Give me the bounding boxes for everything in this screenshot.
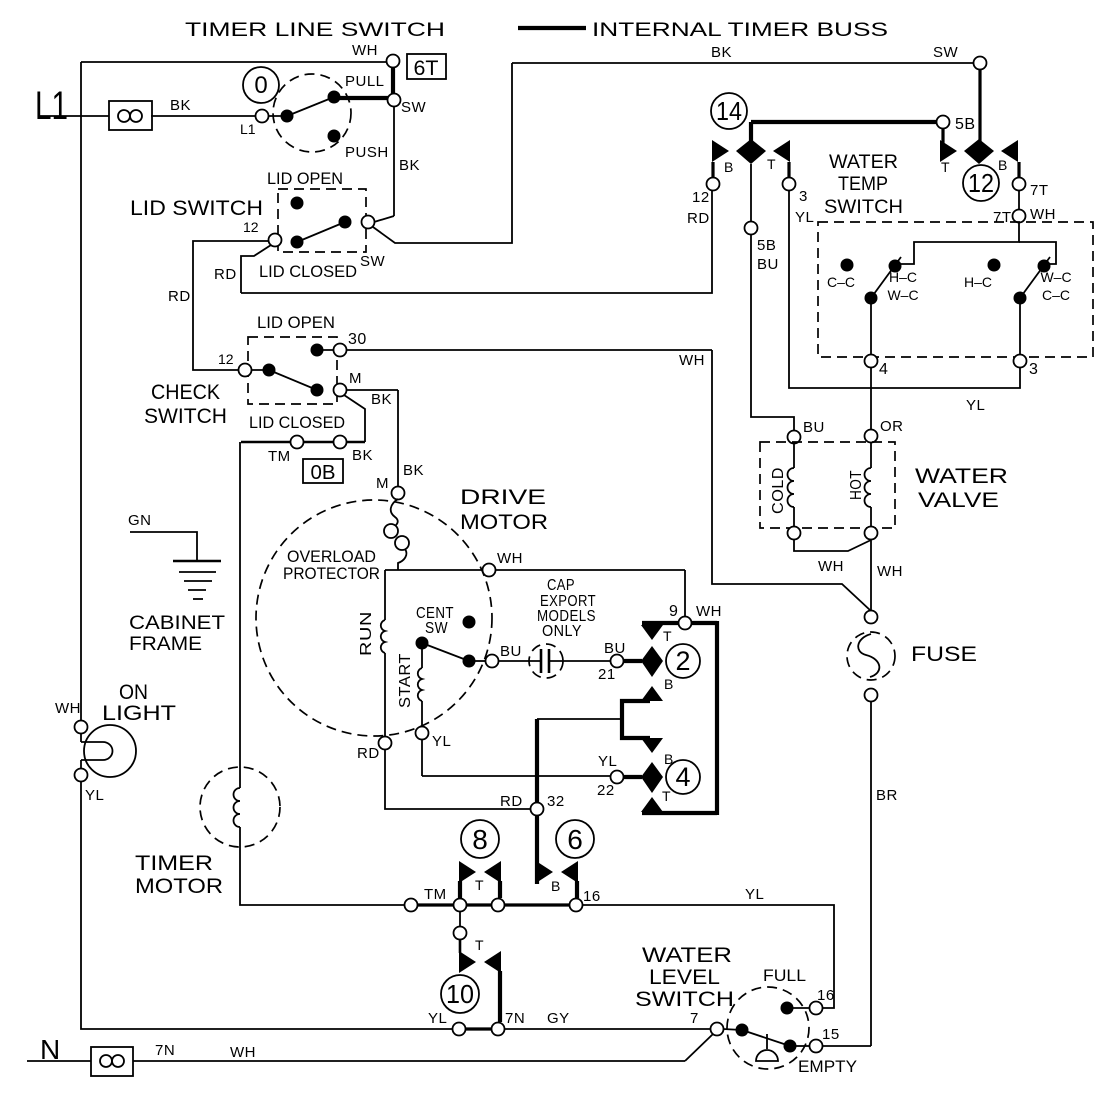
node M drive motor [376,475,405,500]
svg-text:OR: OR [880,418,904,435]
svg-text:6: 6 [567,824,583,855]
wire RD lid switch 12 down to bus [214,245,271,293]
ground GN wire [128,512,197,561]
wire BR down right side [871,701,898,1046]
svg-text:32: 32 [547,793,565,810]
wire N line [27,1042,685,1061]
svg-text:BK: BK [399,157,420,174]
svg-text:4: 4 [879,361,888,378]
contact PUSH [328,130,389,162]
contact 6 right triangle [551,861,578,894]
svg-text:YL: YL [598,753,617,770]
node WH motor top [483,550,524,577]
svg-text:BK: BK [403,462,424,479]
node fuse bottom [865,689,878,702]
svg-text:6T: 6T [414,57,439,80]
bus SW down to contact 12 diamond [978,69,981,143]
svg-text:RD: RD [168,288,191,305]
wire 12 to pivot [251,369,269,371]
ground cabinet frame [173,561,221,599]
wire YL left side down [81,781,452,1029]
lid switch pivot contact [291,236,304,249]
svg-text:TIMER LINE SWITCH: TIMER LINE SWITCH [185,20,445,41]
wire YL to terminal 22 [421,739,423,776]
svg-text:3: 3 [1029,361,1038,378]
svg-text:RD: RD [687,210,710,227]
bus 22 to diamond 4 [623,775,642,779]
node 7T WH [993,206,1056,226]
contact 14 diamond [736,139,766,164]
svg-text:W–C: W–C [887,287,918,303]
water valve title [915,465,1008,512]
svg-text:TM: TM [424,886,447,903]
node WH 6T [387,55,400,68]
svg-text:PULL: PULL [345,73,385,90]
svg-text:T: T [663,628,672,644]
svg-text:ONLY: ONLY [542,623,582,640]
svg-text:YL: YL [85,787,104,804]
svg-text:GN: GN [128,512,152,529]
svg-text:WH: WH [877,563,903,580]
pressure dome [756,1034,778,1061]
wire L1 to pivot [268,115,287,117]
svg-text:16: 16 [817,987,835,1004]
wire diagonal N to 7 [685,1034,713,1061]
timer cam number 0 [243,67,279,103]
node SW top right [933,44,987,70]
terminal box 6T [407,54,446,80]
contact W-C C-C [1038,260,1072,304]
bus step between B contacts [622,701,650,738]
wire B contacts to RD 32 line [537,718,622,720]
svg-text:MOTOR: MOTOR [135,875,223,898]
svg-text:16: 16 [583,888,601,905]
svg-text:COLD: COLD [770,467,787,514]
svg-text:YL: YL [745,886,764,903]
node 7N [492,1010,526,1036]
svg-text:LIGHT: LIGHT [102,702,176,725]
svg-text:FULL: FULL [763,966,806,985]
node 7 [690,1010,724,1036]
contact arm left lower [865,292,878,305]
svg-text:WATER: WATER [642,944,732,967]
water level switch dashed circle [727,987,809,1069]
water temp switch dashed box [818,222,1093,357]
svg-text:RUN: RUN [358,611,375,656]
svg-text:TM: TM [268,448,291,465]
node YL bottom [428,1010,466,1036]
capacitor C1 [498,644,611,678]
contact 4 diamond [641,762,663,793]
node BK lid closed [334,436,374,465]
wire contact 8 right down [498,881,502,898]
svg-text:WH: WH [1030,206,1056,223]
node OR water valve [865,418,904,443]
node 16 [570,888,601,912]
node 9 WH [669,570,722,630]
node 16 water level [793,987,835,1015]
bus PULL to SW [334,96,394,100]
wire to terminal 4 [870,298,872,355]
svg-text:7N: 7N [505,1010,525,1027]
svg-text:T: T [941,159,950,175]
wire 4 down to OR node [870,367,872,430]
svg-text:5B: 5B [757,237,776,254]
cold valve bottom node [788,527,801,540]
contact 6 left triangle [536,861,553,883]
wire 14T to node 3 [787,162,790,178]
svg-text:L1: L1 [35,84,68,128]
timer cam number 2 [666,644,700,678]
wire hot down to fuse WH [871,539,903,611]
timer cam number 8 [461,820,499,858]
fuse symbol [847,632,977,680]
wire M to BK vertical [346,390,398,408]
svg-text:BU: BU [803,419,825,436]
check switch dashed box [248,337,337,404]
motor top wire [385,569,685,571]
contact 4 T triangle [641,788,671,812]
wire YL to 7N [465,1027,492,1030]
wire node to contact 10 [459,939,462,953]
svg-text:14: 14 [716,96,742,126]
wire 12B to node 7T [1017,162,1020,178]
wire left vertical WH [80,62,82,727]
contact H-C W-C [887,260,918,304]
wire top BK bus [512,44,974,63]
svg-text:WH: WH [818,558,844,575]
contact 14 T triangle [767,140,790,172]
hot solenoid coil [848,442,871,527]
lid switch moving contact [339,216,352,229]
lid switch arm [297,222,345,242]
node mid contact 10 [454,927,467,940]
terminal 3 temp switch [1014,355,1039,379]
cent switch arm [422,643,469,661]
node 7T [1013,178,1049,200]
wire TM from lid closed down [239,442,241,788]
svg-text:YL: YL [428,1010,447,1027]
cent switch fixed contact upper [463,616,476,629]
node 5B BU [745,222,758,235]
svg-text:GY: GY [547,1010,570,1027]
svg-text:B: B [551,878,560,894]
lamp on light [81,725,136,777]
svg-text:BR: BR [876,787,898,804]
svg-text:12: 12 [968,168,994,198]
wire run to RD [384,653,386,737]
svg-text:21: 21 [598,666,616,683]
contact PULL [328,73,385,104]
svg-text:H–C: H–C [964,274,992,290]
svg-text:4: 4 [675,762,690,792]
svg-text:T: T [662,788,671,804]
bus down to diamond 14 [749,122,753,142]
contact 12 diamond [964,139,994,164]
svg-text:LID OPEN: LID OPEN [267,169,343,188]
check switch title [144,381,227,428]
wire cold return WH [794,539,871,575]
timer cam number 6 [556,820,594,858]
timer line switch pivot contact [281,110,294,123]
wire BK SW down to lid switch [374,106,420,222]
bus 21 to diamond 2 [623,659,642,663]
wire 7 to common [723,1029,742,1030]
svg-text:BK: BK [371,391,392,408]
node SW lid switch [360,216,386,271]
contacts 2-4 bracket [642,621,717,815]
svg-text:BK: BK [352,447,373,464]
svg-text:DRIVE: DRIVE [460,486,546,509]
legend internal timer buss line [518,26,586,30]
wire YL 16 to water level [582,886,834,1008]
svg-text:7T: 7T [993,209,1012,226]
node contact 8 right [492,899,505,912]
contact arm right lower [1014,292,1027,305]
svg-text:8: 8 [472,824,488,855]
svg-text:BU: BU [604,640,626,657]
svg-text:INTERNAL TIMER BUSS: INTERNAL TIMER BUSS [592,20,888,41]
wire junction down [459,911,461,927]
svg-text:SW: SW [425,620,448,637]
svg-text:3: 3 [799,188,808,205]
timer motor label [135,852,223,898]
contact 2 T triangle [641,625,672,644]
node fuse top [865,611,878,624]
svg-text:9: 9 [669,603,678,620]
svg-text:YL: YL [966,397,985,414]
contact 12 B triangle [998,140,1018,173]
cent switch labels [416,605,454,637]
svg-text:B: B [724,159,733,175]
start winding [397,646,422,708]
svg-text:10: 10 [446,979,474,1009]
node junction 8 [454,899,467,912]
wire YL horizontal to 22 [422,775,611,777]
drive motor dashed circle [256,500,492,736]
contact 2 B triangle [641,676,673,701]
svg-text:VALVE: VALVE [918,489,999,512]
contact 8 right triangle [475,861,501,893]
svg-text:HOT: HOT [848,470,865,500]
svg-text:YL: YL [795,209,814,226]
svg-text:SWITCH: SWITCH [635,988,734,1011]
cent switch pivot [416,637,429,650]
cold solenoid coil [770,443,794,527]
contact 2 diamond [641,646,663,677]
node SW timer line switch [388,94,427,117]
svg-text:B: B [998,157,1007,173]
node YL motor [416,727,452,751]
svg-text:0: 0 [254,72,267,99]
terminal 12 check switch [218,351,252,377]
svg-text:12: 12 [243,219,259,235]
node 15 water level [796,1026,871,1053]
contact H-C [964,259,1001,291]
svg-text:WH: WH [679,352,705,369]
svg-text:RD: RD [500,793,523,810]
contact 12 T triangle [940,140,957,175]
wire YL down to temp switch 3 [789,190,1020,414]
svg-text:START: START [397,653,414,708]
terminal 12 lid switch [243,219,282,247]
wire 5B BU from diamond 14 [751,164,794,431]
wire to terminal 3 [1019,298,1021,355]
svg-text:BK: BK [711,44,732,61]
svg-text:T: T [475,937,484,953]
water valve dashed box [760,442,895,528]
timer line switch dashed circle [273,74,351,152]
lid switch dashed box [278,189,366,252]
wire contact 6 right down [575,881,579,898]
hot valve bottom node [865,527,878,540]
svg-text:PROTECTOR: PROTECTOR [283,564,380,583]
contact lid open (check switch) [311,344,324,357]
node TM [405,886,447,912]
svg-text:LID OPEN: LID OPEN [257,313,335,332]
svg-text:M: M [376,475,389,492]
svg-text:RD: RD [214,266,237,283]
svg-text:WH: WH [230,1044,256,1061]
node 21 BU [598,640,626,683]
svg-text:CHECK: CHECK [151,381,220,404]
svg-text:7N: 7N [155,1042,175,1059]
node 30 [334,331,367,357]
svg-text:BU: BU [500,643,522,660]
drive motor title [460,486,548,534]
terminal block L1 [109,101,152,130]
wire L1 lead [40,97,256,116]
node YL on light [75,769,105,805]
node BU water valve [788,419,825,444]
svg-text:RD: RD [357,745,380,762]
overload protector label [283,547,380,583]
svg-text:LID CLOSED: LID CLOSED [249,413,345,432]
wire M branch to lid closed contacts [344,395,365,442]
node 12 RD [687,178,720,228]
svg-text:LEVEL: LEVEL [649,966,720,989]
node 32 RD [500,793,565,816]
bus 32 down to contact 6 [535,815,539,884]
overload protector squiggle [384,499,409,570]
timer motor coil [234,788,241,827]
water level switch arm [742,1030,790,1046]
svg-text:LID CLOSED: LID CLOSED [259,262,357,281]
temp switch arm left [871,257,901,298]
terminal 4 temp switch [865,355,889,379]
svg-text:WATER: WATER [915,465,1008,488]
check switch pivot contact [263,364,276,377]
wire contact 8 left down [458,881,462,898]
wire RD lid switch 12 to check switch 12 [168,241,269,370]
svg-text:C–C: C–C [1042,287,1070,303]
on light label [102,681,176,725]
svg-text:C–C: C–C [827,274,855,290]
svg-text:BK: BK [170,97,191,114]
svg-text:T: T [767,156,776,172]
wire WH down to fuse [712,350,871,611]
contact C-C [827,259,855,291]
svg-text:LID SWITCH: LID SWITCH [130,197,263,220]
svg-text:TIMER: TIMER [135,852,213,875]
contact 8 left triangle [459,861,476,883]
contact empty dot [784,1040,797,1053]
check switch arm [269,370,317,390]
svg-text:W–C: W–C [1040,269,1071,285]
svg-text:12: 12 [218,351,234,367]
svg-text:WH: WH [55,700,81,717]
motor bottom wire [385,749,530,809]
wire BU cent to capacitor [475,643,522,661]
svg-text:WH: WH [696,603,722,620]
svg-text:CAP: CAP [547,577,575,594]
contact 10 left triangle [459,937,484,973]
svg-text:YL: YL [432,733,451,750]
contact full dot [781,1002,794,1015]
wire contact to node 30 [317,349,334,351]
timer cam number 4 [666,760,700,794]
node M check switch [334,370,363,397]
check switch moving contact [311,384,324,397]
timer cam number 10 [441,975,479,1013]
wire lid closed row [241,441,365,444]
wire 7T into temp switch [897,222,1019,264]
wire branch to WC CC contact [1019,242,1056,264]
svg-text:B: B [664,676,673,692]
wire 14B to node 12 [711,162,714,178]
svg-text:SW: SW [360,253,386,270]
wire timer motor to TM node [240,827,404,905]
node RD motor [357,737,392,763]
bus SW up to 6T node [391,62,395,100]
cabinet frame label [129,613,225,655]
wire RD horizontal to timer contact 14 [241,190,712,293]
svg-text:WH: WH [352,42,378,59]
svg-text:WH: WH [497,550,523,567]
svg-text:PUSH: PUSH [345,144,389,161]
svg-text:H–C: H–C [889,269,917,285]
svg-text:T: T [475,877,484,893]
svg-text:EMPTY: EMPTY [798,1057,857,1076]
svg-text:M: M [349,370,362,387]
svg-text:7T: 7T [1030,182,1049,199]
water temp switch title [824,152,903,218]
svg-text:0B: 0B [311,462,336,484]
contact 10 right triangle [484,951,501,973]
cent switch moving contact [463,655,476,668]
contact lid open (lid switch) [291,197,304,210]
contact 14 B triangle [712,140,733,175]
water level common contact [736,1024,749,1037]
svg-text:MOTOR: MOTOR [460,511,548,534]
contact 4 B triangle [641,738,673,767]
timer motor dashed circle [200,767,280,847]
node 5B [937,116,976,134]
svg-text:SWITCH: SWITCH [144,405,227,428]
temp switch arm right [1020,257,1050,298]
svg-text:ON: ON [119,681,148,704]
node WH on light [55,700,88,734]
svg-text:FRAME: FRAME [129,634,202,655]
wire top-left WH bus [81,42,387,62]
svg-text:22: 22 [597,782,615,799]
svg-text:WATER: WATER [829,152,898,173]
node 3 YL [783,178,815,227]
svg-text:7: 7 [690,1010,699,1027]
svg-text:2: 2 [675,646,690,676]
wire start to YL [421,701,423,727]
terminal L1 node [240,110,269,138]
